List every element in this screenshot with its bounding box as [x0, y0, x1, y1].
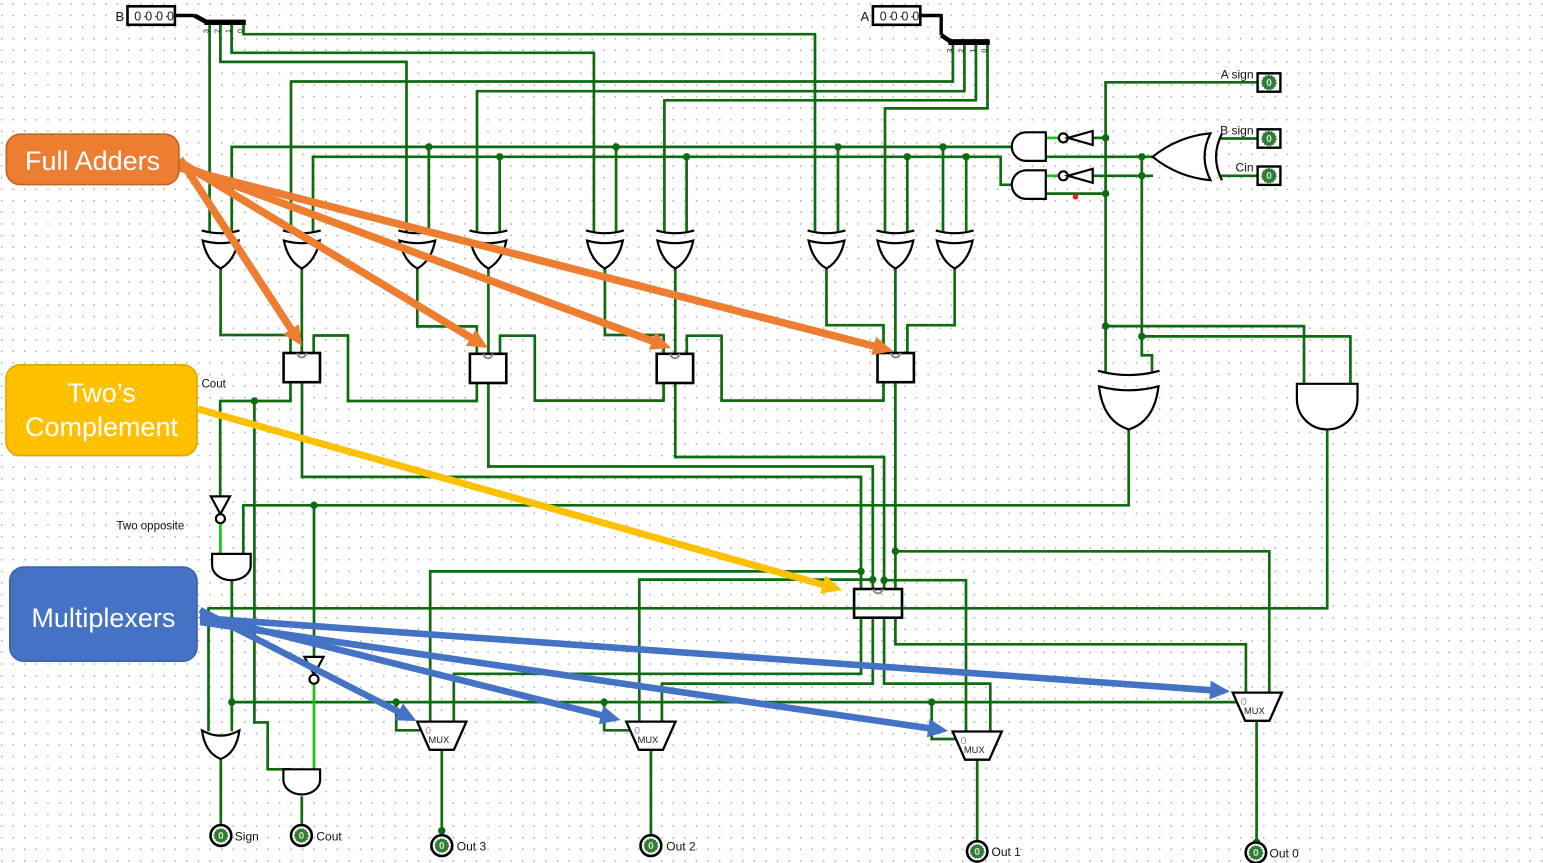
svg-text:B: B	[116, 9, 125, 24]
wire AND G11 out / select net	[228, 580, 1236, 740]
and gate G12	[1297, 384, 1358, 430]
xor gate G8	[877, 230, 915, 268]
wire A splitter leg bit1 to row100	[663, 45, 977, 232]
svg-text:1: 1	[226, 29, 233, 33]
output pin Out 1	[967, 841, 1021, 861]
svg-text:Out 0: Out 0	[1270, 847, 1300, 861]
wire XOR U3 output row157	[1046, 155, 1153, 158]
output pin A sign	[1221, 68, 1281, 92]
two's complement subcircuit X1	[854, 589, 902, 618]
wire MUX M2 out to Out2	[650, 750, 653, 836]
svg-text:Out 2: Out 2	[666, 840, 696, 854]
svg-text:3: 3	[204, 29, 211, 33]
svg-text:0: 0	[880, 9, 887, 23]
not gate U6	[211, 496, 230, 523]
wire NOT U5 out (high)	[1046, 174, 1059, 177]
svg-text:0: 0	[982, 49, 989, 53]
multiplexer M4	[1233, 693, 1282, 721]
svg-text:0: 0	[145, 9, 152, 23]
splitter S2 (A)	[941, 35, 990, 52]
xor gate G6	[656, 230, 694, 268]
wire XOR G4 out to FA2 B	[487, 268, 490, 355]
wire sum0 (FA4) net	[892, 381, 1271, 693]
wire sum1 (FA3) net	[674, 382, 967, 733]
output pin Out 3	[431, 835, 486, 856]
svg-text:0: 0	[1266, 171, 1272, 182]
wire MUX M1 out to Out3	[438, 750, 445, 836]
wire XOR G8 out to FA4 B	[894, 268, 897, 354]
svg-text:Two’s: Two’s	[67, 378, 136, 408]
svg-text:0: 0	[156, 9, 163, 23]
wire A sign bus	[1102, 81, 1305, 384]
wire A splitter leg bit2 to row91	[476, 45, 966, 232]
arrow to MUX M1	[200, 610, 417, 721]
svg-text:MUX: MUX	[638, 735, 659, 745]
and gate U1	[1012, 132, 1046, 161]
wire AND U2 input row193	[1046, 192, 1107, 195]
wire FA2 Cout to FA1 Cin	[313, 336, 479, 403]
wire A bus to splitter	[920, 14, 941, 35]
wire NOT U6 out (high)	[219, 523, 222, 555]
arrow to MUX M3	[200, 622, 948, 737]
svg-text:A: A	[861, 9, 870, 24]
svg-text:MUX: MUX	[429, 735, 450, 745]
wire FA4 Cout to FA3 Cin	[686, 336, 885, 402]
and gate G14	[283, 769, 320, 794]
full adder FA1	[284, 353, 320, 382]
wire Cout net	[219, 382, 292, 771]
svg-text:Sign: Sign	[235, 830, 259, 844]
wire XOR G10 out row505	[242, 429, 1130, 658]
wire Cin branch to overflow gates	[1138, 153, 1351, 384]
xor gate U3	[1153, 133, 1222, 180]
xor gate G5	[586, 230, 624, 268]
svg-text:0: 0	[134, 9, 141, 23]
svg-text:Two opposite: Two opposite	[117, 521, 185, 533]
svg-text:0: 0	[912, 9, 919, 23]
wire XOR G7 out to FA4 A	[825, 268, 884, 354]
full adder FA4	[878, 353, 914, 382]
splitter S1 (B)	[195, 16, 246, 34]
wire A splitter leg bit3 to row81	[290, 45, 954, 232]
wire MUX M4 out to Out0	[1253, 722, 1260, 846]
label Cout wire	[202, 379, 227, 391]
full adder FA3	[657, 354, 693, 383]
svg-text:0: 0	[238, 29, 245, 33]
wire B splitter leg bit0 to row34	[242, 25, 816, 232]
output pin Out 0	[1246, 842, 1299, 862]
svg-text:Out 3: Out 3	[457, 840, 487, 854]
svg-text:3: 3	[947, 49, 954, 53]
wire FA3 Cout to FA2 Cin	[499, 336, 665, 402]
wire XOR G3 out to FA2 A	[416, 268, 478, 355]
xor gate G3	[398, 230, 436, 268]
svg-text:A sign: A sign	[1221, 68, 1254, 82]
wire A splitter leg bit0 to row108	[884, 45, 989, 232]
xor gate G4	[470, 230, 508, 268]
arrow to FA1	[180, 159, 302, 346]
svg-text:Out 1: Out 1	[992, 845, 1022, 859]
svg-text:0: 0	[891, 9, 898, 23]
svg-text:2: 2	[958, 49, 965, 53]
wire B splitter leg bit1 to row53	[230, 25, 595, 232]
svg-text:Cout: Cout	[202, 379, 227, 391]
svg-text:0: 0	[648, 841, 654, 852]
wire XOR G1 out to FA1 A	[219, 268, 291, 354]
svg-text:0: 0	[902, 9, 909, 23]
wire comp2 net	[661, 617, 874, 723]
not gate U5	[1059, 169, 1093, 183]
output pin B sign	[1220, 124, 1280, 148]
wire comp3 net	[453, 617, 863, 723]
svg-text:Cout: Cout	[316, 830, 342, 844]
svg-text:0: 0	[299, 831, 305, 842]
wire AND G14 out to Cout pin	[300, 796, 303, 825]
arrow to MUX M4	[200, 618, 1230, 700]
wire B sign stub	[1219, 137, 1258, 140]
wire sum2 (FA2) net	[487, 382, 876, 723]
wire comp1 net	[883, 617, 992, 733]
label Twos Complement	[6, 365, 197, 456]
wire net invA row156	[312, 153, 1013, 232]
multiplexer M2	[626, 722, 675, 750]
arrow to FA4	[180, 168, 893, 355]
svg-text:MUX: MUX	[964, 745, 985, 755]
output pin Out 2	[641, 835, 696, 856]
wire B splitter leg bit2 to row62	[219, 25, 408, 232]
input pin B	[116, 6, 175, 25]
not gate U7	[304, 657, 323, 684]
svg-text:Multiplexers: Multiplexers	[31, 603, 175, 633]
wire XOR G5 out to FA3 A	[604, 268, 665, 355]
input pin A	[861, 6, 921, 25]
arrow to twos complement box	[198, 409, 842, 594]
svg-text:0: 0	[1266, 134, 1272, 145]
output pin Cin	[1235, 161, 1280, 185]
label Two opposite	[117, 521, 185, 533]
xor gate G2	[283, 230, 321, 268]
svg-text:0: 0	[439, 841, 445, 852]
wire sum3 (FA1) net	[301, 382, 865, 723]
svg-text:0: 0	[167, 9, 174, 23]
wire NOT U4 input	[1093, 137, 1107, 140]
svg-text:MUX: MUX	[1244, 706, 1265, 716]
and gate U2	[1012, 170, 1046, 199]
wire B bus to splitter	[175, 14, 195, 17]
svg-text:0: 0	[1253, 848, 1259, 859]
xor gate G1	[202, 230, 240, 268]
not gate U4	[1059, 131, 1093, 145]
wire Cin net row175	[1093, 172, 1258, 179]
wire XOR G9 out to FA4 Cin	[906, 268, 956, 354]
or gate G13	[202, 730, 239, 759]
xor gate G7	[808, 230, 846, 268]
wire AND G12 out row608	[207, 429, 1328, 731]
wire XOR G6 out to FA3 B	[674, 268, 677, 355]
arrow to FA2	[180, 162, 488, 348]
svg-text:Cin: Cin	[1235, 161, 1253, 175]
and gate G11	[212, 554, 251, 580]
svg-text:2: 2	[214, 29, 221, 33]
wire NOT U4 out (high)	[1046, 137, 1059, 140]
svg-text:0: 0	[974, 847, 980, 858]
multiplexer M3	[953, 732, 1002, 760]
wire XOR G2 out to FA1 B	[300, 268, 303, 354]
wire net invB row147	[231, 143, 1014, 232]
xor gate G9	[936, 230, 974, 268]
label Multiplexers	[10, 567, 197, 661]
error marker	[1073, 194, 1079, 200]
wire MUX M3 out to Out1	[976, 761, 979, 842]
svg-text:Complement: Complement	[25, 412, 179, 442]
svg-text:0: 0	[1266, 78, 1272, 89]
arrow to FA3	[180, 165, 671, 350]
svg-text:0: 0	[218, 831, 224, 842]
wire B splitter leg bit3	[208, 25, 211, 232]
arrow to MUX M2	[200, 615, 621, 724]
xor gate G10	[1098, 371, 1160, 430]
svg-text:1: 1	[970, 49, 977, 53]
full adder FA2	[470, 354, 506, 383]
wire comp0 net	[894, 617, 1247, 694]
wire OR G13 out to Sign	[219, 759, 222, 826]
output pin Sign	[211, 825, 259, 846]
multiplexer M1	[417, 722, 466, 750]
svg-text:B sign: B sign	[1220, 124, 1253, 138]
wire NOT U7 out (high)	[313, 684, 316, 770]
label Full Adders	[6, 134, 179, 184]
svg-text:Full Adders: Full Adders	[25, 146, 160, 176]
output pin Cout	[291, 825, 342, 846]
